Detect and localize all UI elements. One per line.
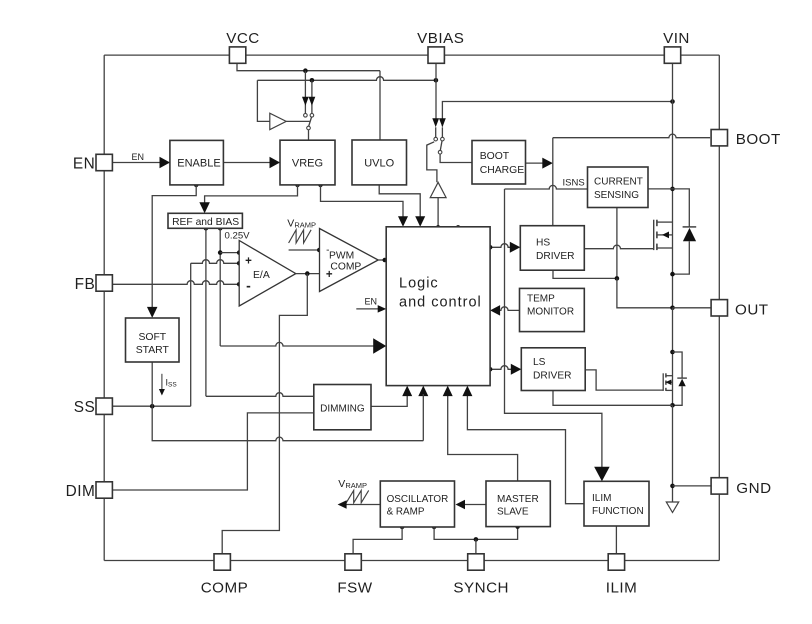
block LS DRIVER (521, 348, 585, 391)
node logic top junction 2 (456, 225, 461, 230)
diode D2 cathode bar (677, 377, 687, 379)
arrowhead TEMP-logic (490, 305, 500, 316)
block HS DRIVER (520, 226, 584, 271)
pin VIN (663, 30, 690, 63)
block ENABLE (170, 140, 224, 185)
pin SYNCH (453, 554, 509, 597)
wire REF to logic comp (220, 342, 373, 346)
arrowhead switch2 contact A (432, 118, 439, 127)
node PWM input (317, 248, 322, 253)
sawtooth VRAMP top (289, 230, 312, 243)
wire SS pin horizontal (112, 405, 190, 407)
wire EA plus input (191, 260, 240, 264)
wire FB to EA minus (112, 281, 239, 285)
svg-text:VBIAS: VBIAS (417, 30, 464, 47)
node MS bottom (515, 524, 520, 529)
wire GND rail (672, 405, 674, 505)
pin FSW (337, 554, 372, 597)
svg-text:CHARGE: CHARGE (480, 165, 525, 176)
node logic top junction 1 (436, 225, 441, 230)
wire SYNCH drop (475, 539, 477, 553)
transistor Q1 source lead (657, 247, 673, 249)
wire BOOT CHARGE output (526, 162, 546, 164)
wire EN into logic (356, 308, 379, 310)
svg-text:FB: FB (75, 276, 96, 293)
wire LS rail upper (672, 308, 674, 406)
svg-text:DRIVER: DRIVER (536, 251, 575, 262)
pin DIM (66, 482, 113, 500)
wire HS gate (584, 245, 653, 249)
arrowhead VREG-logic (398, 216, 408, 227)
svg-text:SENSING: SENSING (594, 190, 639, 201)
arrowhead MS-logic (443, 386, 453, 397)
node ENABLE bottom junction (194, 183, 199, 188)
node REF output 1 (204, 226, 209, 231)
label EA (253, 270, 270, 281)
label Iss (166, 377, 178, 388)
op-amp PWM COMP (320, 229, 379, 292)
arrowhead BC output (542, 158, 553, 169)
transistor Q2 source lead (666, 389, 673, 391)
switch S2 contact A (434, 137, 438, 141)
svg-text:VCC: VCC (226, 30, 260, 47)
wire sense to SW (617, 278, 673, 307)
node VIN CS junction (670, 187, 675, 192)
wire switch2 to OK-detector (427, 142, 437, 183)
node REF output 2 (218, 226, 223, 231)
wire OSC to FSW (353, 527, 402, 553)
svg-text:TEMP: TEMP (527, 294, 555, 305)
wire buffer input feedback (257, 80, 269, 121)
svg-text:CURRENT: CURRENT (594, 177, 643, 188)
svg-text:COMP: COMP (201, 579, 249, 596)
label EN small (132, 152, 145, 162)
wire OK triangle to logic top (437, 198, 439, 228)
wire BOOT net (553, 134, 710, 138)
block ILIM FUNCTION (584, 481, 649, 526)
wire contact stub B (441, 127, 443, 137)
wire VRAMP into PWM (289, 249, 320, 251)
svg-text:PWM: PWM (329, 250, 354, 261)
node OSC bottom 2 (432, 525, 437, 530)
node logic right LS (488, 367, 493, 372)
wire switch2 pole to BOOT CHARGE (440, 154, 472, 163)
label 0.25V (225, 231, 251, 242)
svg-text:REF and BIAS: REF and BIAS (172, 217, 239, 228)
svg-text:VIN: VIN (663, 30, 690, 47)
svg-text:DIMMING: DIMMING (320, 403, 365, 414)
wire 0.25V to EA (220, 252, 239, 254)
switch S1 contact B (310, 114, 314, 118)
svg-text:BOOT: BOOT (736, 131, 781, 148)
wire HS drive (490, 244, 511, 248)
block TEMP MONITOR (520, 288, 585, 331)
wire VBIAS horizontal feed (257, 77, 436, 81)
block CURRENT SENSING (588, 167, 649, 208)
pin OUT (711, 300, 768, 319)
node EA input top (237, 250, 242, 255)
node EA input minus (237, 282, 242, 287)
wire SOFT START to SS net (151, 362, 153, 406)
wire outer border top (104, 54, 719, 56)
node LS drain junction (670, 350, 675, 355)
svg-text:VREG: VREG (292, 157, 323, 169)
wire outer border left (103, 55, 105, 560)
buffer U1 (270, 113, 286, 129)
svg-text:EN: EN (132, 152, 145, 162)
arrowhead LS drive (511, 364, 522, 375)
label EA plus (245, 255, 252, 267)
svg-text:FSW: FSW (337, 579, 372, 596)
arrowhead into ILIM FUNCTION (594, 467, 610, 482)
transistor Q2 body lead (665, 379, 672, 385)
arrowhead into REF and BIAS (199, 202, 210, 213)
block MASTER SLAVE (486, 481, 550, 527)
arrowhead SS-logic up (418, 386, 428, 397)
node VREG bottom-left junction (295, 183, 300, 188)
wire LS driver bottom (553, 391, 673, 406)
label PWM (329, 250, 354, 261)
wire VREG to logic (321, 185, 404, 218)
wire VCC branch to UVLO (379, 71, 381, 141)
wire outer border bottom (104, 560, 719, 562)
wire BC rail (552, 138, 554, 226)
arrowhead EN into ENABLE (160, 157, 171, 169)
wire LS gate path (585, 370, 663, 390)
wire MASTER SLAVE to logic (448, 394, 518, 481)
pin EN (73, 154, 112, 172)
node SS junction (150, 404, 155, 409)
svg-text:MONITOR: MONITOR (527, 306, 574, 317)
diode D2 anode lead (673, 386, 683, 405)
svg-text:OUT: OUT (735, 302, 769, 319)
svg-text:ISNS: ISNS (563, 178, 585, 189)
wire GND to pin (673, 485, 712, 487)
label VRAMP top (287, 217, 316, 229)
diode D1 cathode bar (683, 226, 697, 228)
wire SW to OUT (673, 307, 712, 309)
sawtooth VRAMP bottom (346, 490, 369, 502)
block DIMMING (314, 385, 371, 430)
wire CS to rail (648, 188, 673, 190)
label EA minus (246, 277, 251, 293)
wire ENABLE to VREG (223, 162, 280, 164)
wire TEMP to logic (499, 307, 520, 311)
wire LS drive (490, 366, 512, 370)
node EA input plus (237, 261, 242, 266)
svg-text:SS: SS (74, 399, 96, 416)
pin FB (75, 275, 113, 293)
arrowhead into SOFT START (147, 307, 158, 318)
pin SS (74, 398, 113, 416)
wire switch pole to VREG (308, 130, 310, 140)
svg-text:SOFT: SOFT (138, 332, 166, 343)
block REF and BIAS (168, 213, 242, 228)
transistor Q2 channel (665, 373, 667, 391)
node GND junction (670, 484, 675, 489)
svg-text:+: + (326, 269, 333, 281)
wire EA to COMP pin (222, 274, 307, 554)
switch S2 contact B (441, 137, 445, 141)
svg-text:ILIM: ILIM (592, 493, 611, 504)
diode D2 branch (673, 352, 683, 378)
switch S2 pole (438, 150, 442, 154)
svg-text:EN: EN (73, 155, 95, 172)
wire ILIM sense vertical (505, 189, 602, 468)
svg-text:HS: HS (536, 238, 550, 249)
wire buffer output (286, 120, 310, 122)
svg-text:DRIVER: DRIVER (533, 370, 572, 381)
svg-text:E/A: E/A (253, 270, 270, 281)
svg-text:MASTER: MASTER (497, 494, 539, 505)
node OSC bottom 1 (400, 525, 405, 530)
label PWM plus (326, 269, 333, 281)
wire EA output (296, 273, 320, 275)
pin VCC (226, 30, 260, 63)
wire DIM to DIMMING (112, 413, 313, 490)
svg-text:BOOT: BOOT (480, 151, 510, 162)
svg-text:UVLO: UVLO (364, 157, 394, 169)
wire VIN to switch horizontal (442, 102, 672, 127)
arrowhead DIMMING-logic (402, 386, 412, 397)
switch S1 pole (307, 126, 311, 130)
svg-text:EN: EN (365, 297, 378, 307)
arrowhead switch2 contact B (439, 118, 446, 127)
svg-text:SYNCH: SYNCH (453, 579, 509, 596)
node HS bottom junction (615, 276, 620, 281)
node EA output (305, 271, 310, 276)
diode D1 anode lead (673, 241, 690, 274)
transistor Q2 drain lead (666, 375, 673, 377)
wire HS driver bottom (553, 270, 617, 278)
arrowhead switch contact B (309, 97, 316, 106)
diode D1 branch (673, 189, 690, 227)
node VBIAS feed junction (310, 78, 315, 83)
op-amp E/A (239, 241, 296, 307)
svg-text:LS: LS (533, 357, 546, 368)
arrowhead big into logic (373, 338, 386, 354)
pin VBIAS (417, 30, 464, 63)
node SYNCH junction (474, 537, 479, 542)
svg-text:START: START (136, 345, 170, 356)
wire REF output1 vertical (206, 228, 314, 396)
switch S1 arm (309, 117, 312, 126)
block Logic and control (386, 227, 490, 386)
svg-text:OSCILLATOR: OSCILLATOR (387, 494, 449, 505)
wire ENABLE to SOFT START (152, 185, 196, 309)
wire EN input (112, 162, 170, 164)
wire UVLO to logic (379, 185, 420, 218)
diode D1 (683, 228, 696, 241)
wire REF output2 vertical (219, 228, 221, 346)
arrowhead into VREG (270, 157, 281, 169)
block OSCILLATOR RAMP (380, 481, 454, 527)
wire SYNCH net (434, 527, 517, 540)
transistor Q1 body lead (657, 232, 673, 239)
svg-text:SLAVE: SLAVE (497, 506, 529, 517)
node SW (670, 306, 675, 311)
label VRAMP bottom (338, 478, 367, 490)
node diode return (670, 272, 675, 277)
wire VREG to REF and BIAS (205, 185, 298, 205)
node LS source (670, 403, 675, 408)
wire PWM output (378, 259, 386, 261)
wire ISNS net (505, 185, 588, 189)
wire VRAMP out arrow (338, 500, 381, 509)
transistor Q1 drain lead (657, 221, 673, 223)
svg-text:+: + (245, 255, 252, 267)
node VIN junction (670, 99, 675, 104)
arrowhead switch contact A (302, 97, 309, 106)
arrowhead UVLO-logic (415, 216, 425, 227)
switch S1 contact A (304, 114, 308, 118)
label COMP (330, 261, 361, 272)
pin GND (711, 478, 771, 497)
wire CS bottom sense (616, 208, 618, 279)
svg-text:0.25V: 0.25V (225, 231, 251, 242)
block SOFT START (126, 318, 180, 362)
block UVLO (352, 140, 407, 185)
arrowhead EN-logic (378, 305, 387, 313)
wire switch contact B drop (311, 80, 313, 113)
wire VIN rail (672, 63, 674, 307)
arrowhead ILIMwire-logic (462, 386, 472, 397)
node VREG bottom-right junction (318, 183, 323, 188)
node VBIAS vertical junction (434, 78, 439, 83)
svg-text:DIM: DIM (66, 483, 96, 500)
svg-text:and control: and control (399, 294, 482, 310)
wire arrow stub dim2 (422, 394, 424, 441)
block VREG (280, 140, 335, 185)
label Iss arrow (159, 374, 165, 396)
wire outer border right (718, 55, 720, 560)
wire SS to logic (152, 406, 423, 441)
wire contact stub A (435, 127, 437, 137)
switch S2 arm (440, 141, 442, 150)
svg-text:ENABLE: ENABLE (177, 157, 220, 169)
svg-text:-: - (246, 277, 251, 293)
node logic right HS (488, 245, 493, 250)
svg-text:Logic: Logic (399, 275, 439, 291)
label PWM minus (326, 245, 329, 256)
wire switch contact A drop (304, 71, 306, 114)
wire MS to OSC (456, 500, 487, 510)
wire VCC to supply switch (237, 63, 380, 70)
wire VBIAS drop (435, 63, 437, 121)
transistor Q2 gate bar (662, 373, 664, 391)
label ISNS (563, 178, 585, 189)
pin BOOT (711, 130, 781, 148)
label EN near logic (365, 297, 378, 307)
wire ILIM wire to logic (467, 394, 584, 504)
svg-text:GND: GND (736, 480, 771, 497)
comparator OK triangle (430, 182, 446, 197)
svg-text:ILIM: ILIM (606, 579, 638, 596)
arrowhead HS drive (510, 242, 521, 253)
pin ILIM (606, 554, 638, 597)
svg-text:COMP: COMP (330, 261, 361, 272)
transistor Q1 channel (656, 220, 658, 250)
block BOOT CHARGE (472, 141, 526, 185)
svg-text:& RAMP: & RAMP (387, 506, 425, 517)
wire ILIM FUNCTION to pin (615, 526, 617, 553)
svg-text:FUNCTION: FUNCTION (592, 506, 644, 517)
diode D2 (678, 379, 685, 387)
ground symbol (666, 502, 678, 513)
wire SS vertical to EA (190, 263, 192, 406)
node VCC junction (303, 68, 308, 73)
pin COMP (201, 554, 249, 597)
node PWM output (383, 258, 388, 263)
wire DIMMING to logic (371, 394, 407, 406)
node 0.25V tap (218, 250, 223, 255)
transistor Q1 gate bar (653, 220, 655, 250)
